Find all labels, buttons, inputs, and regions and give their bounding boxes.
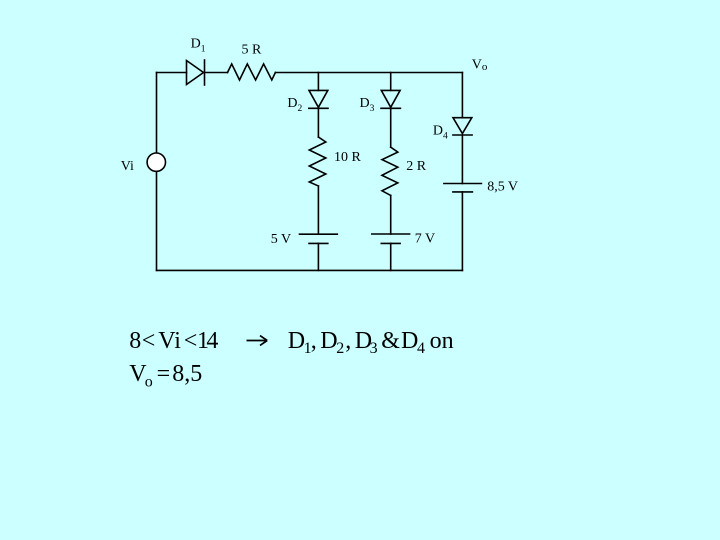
svg-text:5 R: 5 R <box>242 42 263 57</box>
svg-text:3: 3 <box>370 340 378 357</box>
svg-text:8,5: 8,5 <box>172 361 202 387</box>
svg-text:2: 2 <box>336 340 344 357</box>
wire: D4 to 8,5V battery <box>461 135 463 184</box>
equation arrow <box>247 336 268 346</box>
wire: top rail between D1 and 5R <box>205 72 228 74</box>
svg-text:5 V: 5 V <box>271 232 291 247</box>
wire: D2 to 10R <box>317 108 319 137</box>
svg-text:o: o <box>145 374 153 391</box>
svg-text:&: & <box>381 328 400 354</box>
resistor 10R <box>309 137 326 186</box>
equation line 2: Vo = 8,5 <box>129 361 202 391</box>
svg-text:,: , <box>345 328 351 354</box>
svg-text:Vi: Vi <box>121 159 134 174</box>
equation line 1: 8 < Vi < 14 <box>129 328 218 354</box>
svg-text:4: 4 <box>417 340 425 357</box>
wire: 2R to 7V battery <box>390 195 392 234</box>
resistor 2R <box>382 147 398 195</box>
svg-text:4: 4 <box>206 328 218 354</box>
svg-text:8,5 V: 8,5 V <box>487 180 518 195</box>
svg-text:=: = <box>157 361 171 387</box>
battery V1 5V <box>300 234 338 243</box>
svg-text:D: D <box>401 328 418 354</box>
source Vi circle <box>147 153 165 171</box>
diode D3 <box>381 90 400 108</box>
wire: bottom rail <box>157 269 463 271</box>
svg-text:Vi: Vi <box>158 328 181 354</box>
wire: 7V battery to bottom rail <box>390 243 392 270</box>
wire: right branch from top rail to D4 <box>461 73 463 118</box>
wire: D2 branch from top rail <box>317 73 319 91</box>
svg-text:,: , <box>311 328 317 354</box>
resistor R 5R <box>228 64 276 80</box>
wire: top rail right segment <box>275 72 462 74</box>
wire: D3 branch from top rail <box>390 73 392 91</box>
svg-text:7 V: 7 V <box>415 231 435 246</box>
wire: 10R to 5V battery <box>317 186 319 234</box>
svg-text:D: D <box>320 328 337 354</box>
diode D2 <box>309 90 328 108</box>
svg-text:<: < <box>142 328 156 354</box>
diode D1 <box>187 60 205 85</box>
wire: left branch from top rail to Vi source <box>156 73 158 154</box>
wire: 8,5V battery to bottom rail <box>461 192 463 271</box>
svg-text:on: on <box>430 328 454 354</box>
wire: Vi source to bottom rail <box>156 171 158 270</box>
wire: 5V battery to bottom rail <box>317 243 319 270</box>
wire: top rail left segment <box>157 72 187 74</box>
svg-text:D: D <box>288 328 305 354</box>
wire: D3 to 2R <box>390 108 392 147</box>
diode D4 <box>453 118 472 135</box>
equation line 1: D1, D2, D3 & D4 on <box>288 328 454 357</box>
battery V3 8,5V <box>444 184 482 192</box>
svg-text:8: 8 <box>129 328 141 354</box>
svg-text:<: < <box>184 328 198 354</box>
svg-text:10 R: 10 R <box>334 150 362 165</box>
battery V2 7V <box>372 234 410 243</box>
svg-text:2 R: 2 R <box>406 159 427 174</box>
